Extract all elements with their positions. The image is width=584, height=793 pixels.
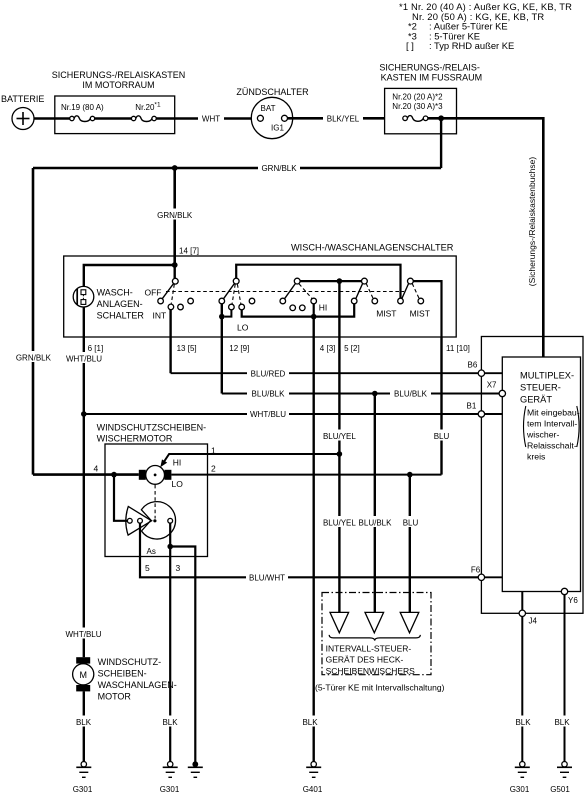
MIST2 arm contact <box>398 298 404 304</box>
svg-text:BLK: BLK <box>302 718 318 727</box>
wire motor LO row BLU to pin 11 <box>171 474 441 476</box>
svg-text:HI: HI <box>173 458 182 468</box>
wire label BLK Y6 <box>551 716 573 727</box>
svg-text:F6: F6 <box>471 566 481 575</box>
wire inside fussraum box <box>428 117 457 120</box>
svg-text:SICHERUNGS-/RELAIS-: SICHERUNGS-/RELAIS- <box>379 63 480 73</box>
svg-text:B6: B6 <box>468 361 478 370</box>
wire B6 stub <box>481 372 502 374</box>
wire J4 column to ground <box>521 617 523 762</box>
MIST1 arm <box>356 284 363 299</box>
washer switch label <box>97 288 145 321</box>
svg-text:As: As <box>147 547 156 556</box>
fuse Nr.20 fussraum <box>403 116 428 122</box>
node fussraum fuse output <box>438 115 444 121</box>
wire fuse f19 to f20 <box>95 117 132 120</box>
motor armature <box>146 466 165 485</box>
wire motor HI row BLU/YEL <box>162 454 340 465</box>
washer motor label <box>98 657 177 702</box>
pole2 contact g <box>249 298 255 304</box>
svg-text:Y6: Y6 <box>568 596 578 605</box>
svg-text:12 [9]: 12 [9] <box>229 344 249 353</box>
wire BLU column to interval unit <box>409 475 411 613</box>
pole3 contact m1 <box>290 305 296 311</box>
ground G501 <box>550 762 572 793</box>
HI arrowhead <box>160 459 167 467</box>
wire washer switch to pin 6 and down <box>83 307 85 657</box>
svg-text:INTERVALL-STEUER-: INTERVALL-STEUER- <box>326 644 412 654</box>
node bus to pin 4 <box>311 314 317 320</box>
wire ignition to fussraum box, BLK/YEL <box>288 117 385 120</box>
pole3 contact HI <box>311 298 317 304</box>
svg-text:5 [2]: 5 [2] <box>344 344 360 353</box>
svg-text:OFF: OFF <box>145 288 162 298</box>
wire BLU/RED row to B6 <box>171 372 479 374</box>
wiper motor box title <box>97 423 207 444</box>
connector X7 <box>499 390 505 396</box>
svg-text:WISCHERMOTOR: WISCHERMOTOR <box>97 434 173 444</box>
wire fussraum fuse down to GRN/BLK row <box>440 118 442 168</box>
svg-text:wischer-: wischer- <box>526 429 559 439</box>
wiper/washer switch box <box>64 256 457 337</box>
svg-text:BAT: BAT <box>261 104 276 113</box>
wire battery to fuse box <box>34 117 70 120</box>
svg-text:SCHEIBENWISCHERS: SCHEIBENWISCHERS <box>326 666 416 676</box>
wire pin5 column lower BLU/YEL <box>338 454 340 612</box>
svg-text:BLU/BLK: BLU/BLK <box>394 390 428 399</box>
connector J4 <box>519 610 525 616</box>
wire cam contact b to pin5 motor / BLU/WHT row to F6 <box>140 523 478 577</box>
ground G301 wiper motor <box>160 762 180 793</box>
svg-text:STEUER-: STEUER- <box>520 383 561 393</box>
svg-text:GERÄT: GERÄT <box>520 394 552 404</box>
svg-text:ANLAGEN-: ANLAGEN- <box>97 299 143 309</box>
wire pin 13 column <box>169 310 171 374</box>
pole2 pivot feed elbow to MIST2 contact <box>236 265 400 299</box>
pole3 pivot <box>294 278 300 284</box>
multiplex outer box (connector housing) <box>481 337 583 614</box>
pole2 contact f LO <box>239 304 245 310</box>
pole3 contact m2 <box>300 305 306 311</box>
pole3 dashed arm to HI <box>299 284 312 299</box>
wire label GRN/BLK row <box>258 162 300 173</box>
wire F6 stub <box>481 576 502 578</box>
wire label BLU/WHT <box>246 572 288 583</box>
fuse Nr.19 <box>70 116 95 122</box>
svg-text:GERÄT DES HECK-: GERÄT DES HECK- <box>326 655 404 665</box>
pole2 arm contact <box>219 298 225 304</box>
wire pin 4 column to ground G401 <box>313 317 315 762</box>
pole1 dashed arm to INT <box>171 284 174 303</box>
svg-text:IG1: IG1 <box>271 124 284 133</box>
node pin5 to BLU/YEL <box>337 451 343 457</box>
wire J4 from multiplex bottom <box>521 592 523 611</box>
wire HI contact down to bus <box>313 304 315 317</box>
ignition switch ZUENDSCHALTER <box>251 97 292 138</box>
wire label BLU/YEL upper <box>320 430 359 441</box>
ground G301 J4 <box>510 762 530 793</box>
svg-text:BLU: BLU <box>403 518 419 527</box>
svg-text:BLU/WHT: BLU/WHT <box>249 574 285 583</box>
cam contact b <box>138 518 143 523</box>
MIST2 pivot <box>408 278 414 284</box>
svg-text:(Sicherungs-/Relaiskastenbuchs: (Sicherungs-/Relaiskastenbuchse) <box>527 157 537 287</box>
cam plate disc <box>141 502 175 539</box>
pole2 dashed arm to LO contacts <box>232 284 241 304</box>
svg-text:WHT/BLU: WHT/BLU <box>250 410 286 419</box>
svg-text:ZÜNDSCHALTER: ZÜNDSCHALTER <box>236 87 309 97</box>
node pin12 junction <box>219 314 225 320</box>
wire label WHT/BLU row <box>247 409 289 420</box>
mechanical link dashed line <box>166 291 404 293</box>
connector B1 <box>478 411 484 417</box>
pole1 contact OFF <box>158 298 164 304</box>
wire label WHT <box>198 113 224 124</box>
MIST1 pivot <box>362 278 368 284</box>
svg-text:3: 3 <box>176 563 181 573</box>
svg-text:6 [1]: 6 [1] <box>88 344 104 353</box>
wire label BLU/RED <box>247 368 289 379</box>
multiplex note with parentheses <box>524 406 580 461</box>
interval connector triangle 3 <box>400 612 419 632</box>
interval connector triangle 1 <box>330 612 349 632</box>
battery BATTERIE <box>1 94 44 130</box>
wire label BLK G401 <box>299 716 321 727</box>
wire BLU/BLK row to X7 <box>222 393 500 395</box>
connector Y6 <box>561 588 567 594</box>
wire contact e elbow <box>225 310 232 317</box>
MIST2 arm <box>402 284 409 299</box>
svg-text:MIST: MIST <box>410 309 430 319</box>
svg-text:M: M <box>79 670 87 680</box>
fuse/relay box footwell title <box>379 63 482 83</box>
wire BLU/BLK column to interval unit <box>374 394 376 613</box>
svg-text:SICHERUNGS-/RELAISKASTEN: SICHERUNGS-/RELAISKASTEN <box>52 70 186 80</box>
svg-text:WASCH-: WASCH- <box>97 288 133 298</box>
wire bus to MIST1 contact <box>314 304 355 317</box>
pole2 pivot <box>233 278 239 284</box>
pole1 pivot <box>172 278 178 284</box>
MIST2 open contact <box>418 298 424 304</box>
svg-text:WISCH-/WASCHANLAGENSCHALTER: WISCH-/WASCHANLAGENSCHALTER <box>291 243 454 253</box>
svg-text:G301: G301 <box>510 785 530 793</box>
svg-text:GRN/BLK: GRN/BLK <box>157 211 193 220</box>
cam contact As <box>168 518 173 523</box>
MIST1 open contact <box>372 298 378 304</box>
node As branch <box>167 544 173 550</box>
node motor pin4 branch <box>111 472 117 478</box>
svg-text:BLK: BLK <box>76 718 92 727</box>
svg-text:B1: B1 <box>467 401 477 410</box>
svg-text:4 [3]: 4 [3] <box>320 344 336 353</box>
cam wedge contact arm <box>126 507 152 536</box>
brace under triangles <box>329 635 420 641</box>
ground G301 washer <box>73 762 93 793</box>
svg-text:BLK: BLK <box>515 718 531 727</box>
fuse box motorraum <box>55 96 175 134</box>
svg-text:MIST: MIST <box>376 309 396 319</box>
svg-text:BLK: BLK <box>162 718 178 727</box>
svg-text:G301: G301 <box>160 785 180 793</box>
svg-text:KASTEN IM FUSSRAUM: KASTEN IM FUSSRAUM <box>381 73 483 83</box>
pole2 contact e <box>229 304 235 310</box>
svg-text:WINDSCHUTZSCHEIBEN-: WINDSCHUTZSCHEIBEN- <box>97 423 207 433</box>
svg-text:tem Intervall-: tem Intervall- <box>527 418 577 428</box>
svg-text:MOTOR: MOTOR <box>98 692 132 702</box>
wire fusebox to ignition, WHT <box>156 117 257 120</box>
multiplex control unit box <box>502 357 580 592</box>
svg-text:X7: X7 <box>487 381 497 390</box>
svg-text:G301: G301 <box>73 785 93 793</box>
note text block top right <box>399 1 572 51</box>
svg-text:GRN/BLK: GRN/BLK <box>16 354 52 363</box>
node GRN/BLK to pin 14 <box>172 165 178 171</box>
node BLU branch to interval unit <box>407 472 413 478</box>
svg-text:BLU: BLU <box>434 432 450 441</box>
wire pin 14 column <box>173 168 176 265</box>
wire GRN/BLK row <box>33 167 441 170</box>
interval unit label <box>326 644 416 677</box>
svg-text:IM MOTORRAUM: IM MOTORRAUM <box>82 80 154 90</box>
interval unit dashed box <box>322 593 431 675</box>
node BLU/BLK branch <box>372 391 378 397</box>
svg-text:GRN/BLK: GRN/BLK <box>261 164 297 173</box>
fuse box fussraum <box>385 88 457 133</box>
svg-text:BLK/YEL: BLK/YEL <box>327 115 360 124</box>
motor left terminal <box>139 470 146 480</box>
wire contact f to bus <box>242 310 314 317</box>
svg-text:BLU/BLK: BLU/BLK <box>359 518 393 527</box>
svg-text:J4: J4 <box>529 617 538 626</box>
wire As branch right and down <box>170 547 195 762</box>
svg-text:WHT/BLU: WHT/BLU <box>66 630 102 639</box>
svg-text:11 [10]: 11 [10] <box>446 344 470 353</box>
svg-text:HI: HI <box>319 303 328 313</box>
wire label BLU/BLK left <box>247 388 289 399</box>
wire cam contact As down to ground <box>169 523 171 761</box>
svg-text:G501: G501 <box>550 785 570 793</box>
wiper motor box WINDSCHUTZSCHEIBENWISCHERMOTOR <box>105 444 208 557</box>
wire label BLK J4 <box>512 716 534 727</box>
node pin5 tap <box>337 278 343 284</box>
svg-text:SCHEIBEN-: SCHEIBEN- <box>98 669 147 679</box>
wire washer motor to ground <box>83 691 85 761</box>
svg-text:BATTERIE: BATTERIE <box>1 94 44 104</box>
ground wiper motor branch <box>188 761 203 777</box>
svg-text:BLK: BLK <box>554 718 570 727</box>
cam center <box>153 519 156 522</box>
svg-text:kreis: kreis <box>527 451 546 461</box>
wire pin4 branch to cam contact <box>114 475 127 521</box>
svg-text:SCHALTER: SCHALTER <box>97 310 145 320</box>
pole1 contact c <box>178 304 184 310</box>
wire pole3 pivot to MIST1 pivot <box>300 280 361 282</box>
pole1 arm OFF <box>162 284 173 299</box>
svg-text:INT: INT <box>153 311 167 321</box>
ground G401 <box>303 762 323 793</box>
svg-text:4: 4 <box>94 464 99 474</box>
svg-text:BLU/BLK: BLU/BLK <box>252 390 286 399</box>
node WHT/BLU branch on washer wire <box>81 411 87 417</box>
svg-text:WASCHANLAGEN-: WASCHANLAGEN- <box>98 680 177 690</box>
wire label BLK/YEL <box>323 113 363 124</box>
svg-text:Nr.19 (80 A): Nr.19 (80 A) <box>61 103 104 112</box>
MIST2 dashed arm <box>412 284 419 299</box>
svg-text:Relaisschalt-: Relaisschalt- <box>527 440 577 450</box>
interval connector triangle 2 <box>365 612 384 632</box>
wire label WHT/BLU washer motor <box>63 628 104 639</box>
wire label BLK washer <box>73 716 95 727</box>
svg-text:LO: LO <box>172 479 184 489</box>
svg-text:Nr.20 (20 A)*2: Nr.20 (20 A)*2 <box>392 93 443 102</box>
wire Y6 column to ground <box>564 595 566 762</box>
wire left rail GRN/BLK down <box>32 168 35 475</box>
wire label WHT/BLU pin6 <box>63 352 104 363</box>
wire label GRN/BLK pin14 <box>155 209 195 220</box>
wire pin 11 column <box>440 337 442 475</box>
wire label BLK motor ground <box>159 716 181 727</box>
pole1 contact INT <box>168 304 174 310</box>
pole1 contact d <box>188 298 194 304</box>
fuse/relay box engine compartment title <box>52 70 186 90</box>
MIST1 contact <box>351 298 357 304</box>
pole3 arm <box>285 283 296 298</box>
svg-text:BLU/YEL: BLU/YEL <box>323 518 356 527</box>
svg-text:G401: G401 <box>303 785 323 793</box>
washer motor WINDSCHUTZSCHEIBENWASCHANLAGENMOTOR <box>73 657 94 691</box>
wire pin14 node to washer switch <box>84 265 175 286</box>
wire label GRN/BLK left rail <box>14 351 53 363</box>
wire label BLU column <box>399 516 422 527</box>
wire left rail to wiper motor pin 4 <box>33 473 139 476</box>
node pin14 inside box <box>172 262 178 268</box>
multiplex title <box>520 371 574 405</box>
svg-text:WINDSCHUTZ-: WINDSCHUTZ- <box>98 657 162 667</box>
pole1 pivot feed <box>173 265 175 278</box>
washer switch WASCHANLAGENSCHALTER <box>73 286 94 307</box>
dashed shaft motor to cam <box>154 485 156 519</box>
svg-text:13 [5]: 13 [5] <box>177 344 197 353</box>
svg-text:BLU/YEL: BLU/YEL <box>323 432 356 441</box>
svg-text:WHT: WHT <box>202 115 220 124</box>
wire pin 5 column upper <box>338 281 340 454</box>
svg-text:(5-Türer KE mit Intervallschal: (5-Türer KE mit Intervallschaltung) <box>315 683 445 693</box>
fuse Nr.20 <box>131 116 156 122</box>
svg-text:14 [7]: 14 [7] <box>179 247 199 256</box>
svg-text:Mit eingebau-: Mit eingebau- <box>527 407 580 417</box>
wire label BLU/BLK column <box>355 516 395 527</box>
wire label BLU/BLK right <box>390 388 431 399</box>
connector B6 <box>478 370 484 376</box>
wire pin 12 column <box>221 304 223 394</box>
svg-text:WHT/BLU: WHT/BLU <box>66 354 102 363</box>
svg-text:Nr.20 (30 A)*3: Nr.20 (30 A)*3 <box>392 102 443 111</box>
wire feed to multiplex (right and down) <box>457 118 544 357</box>
svg-text:BLU/RED: BLU/RED <box>251 369 286 378</box>
wire label BLU pin11 <box>430 430 453 441</box>
svg-text:MULTIPLEX-: MULTIPLEX- <box>520 371 574 381</box>
pole2 arm <box>224 283 235 298</box>
fuse Nr.20 fussraum labels <box>392 93 443 112</box>
wire label BLU/YEL lower <box>320 516 359 527</box>
wire WHT/BLU row to B1 <box>84 413 479 415</box>
motor right terminal <box>164 470 171 480</box>
wire MIST2 pivot to pin 11 <box>413 281 441 337</box>
connector F6 <box>478 574 484 580</box>
cam contact a <box>127 518 132 523</box>
pole3 arm contact <box>280 298 286 304</box>
svg-text:LO: LO <box>237 323 249 333</box>
MIST1 dashed arm <box>366 284 373 299</box>
wire B1 stub <box>481 413 502 415</box>
svg-text:5: 5 <box>145 563 150 573</box>
svg-text:2: 2 <box>211 464 216 474</box>
